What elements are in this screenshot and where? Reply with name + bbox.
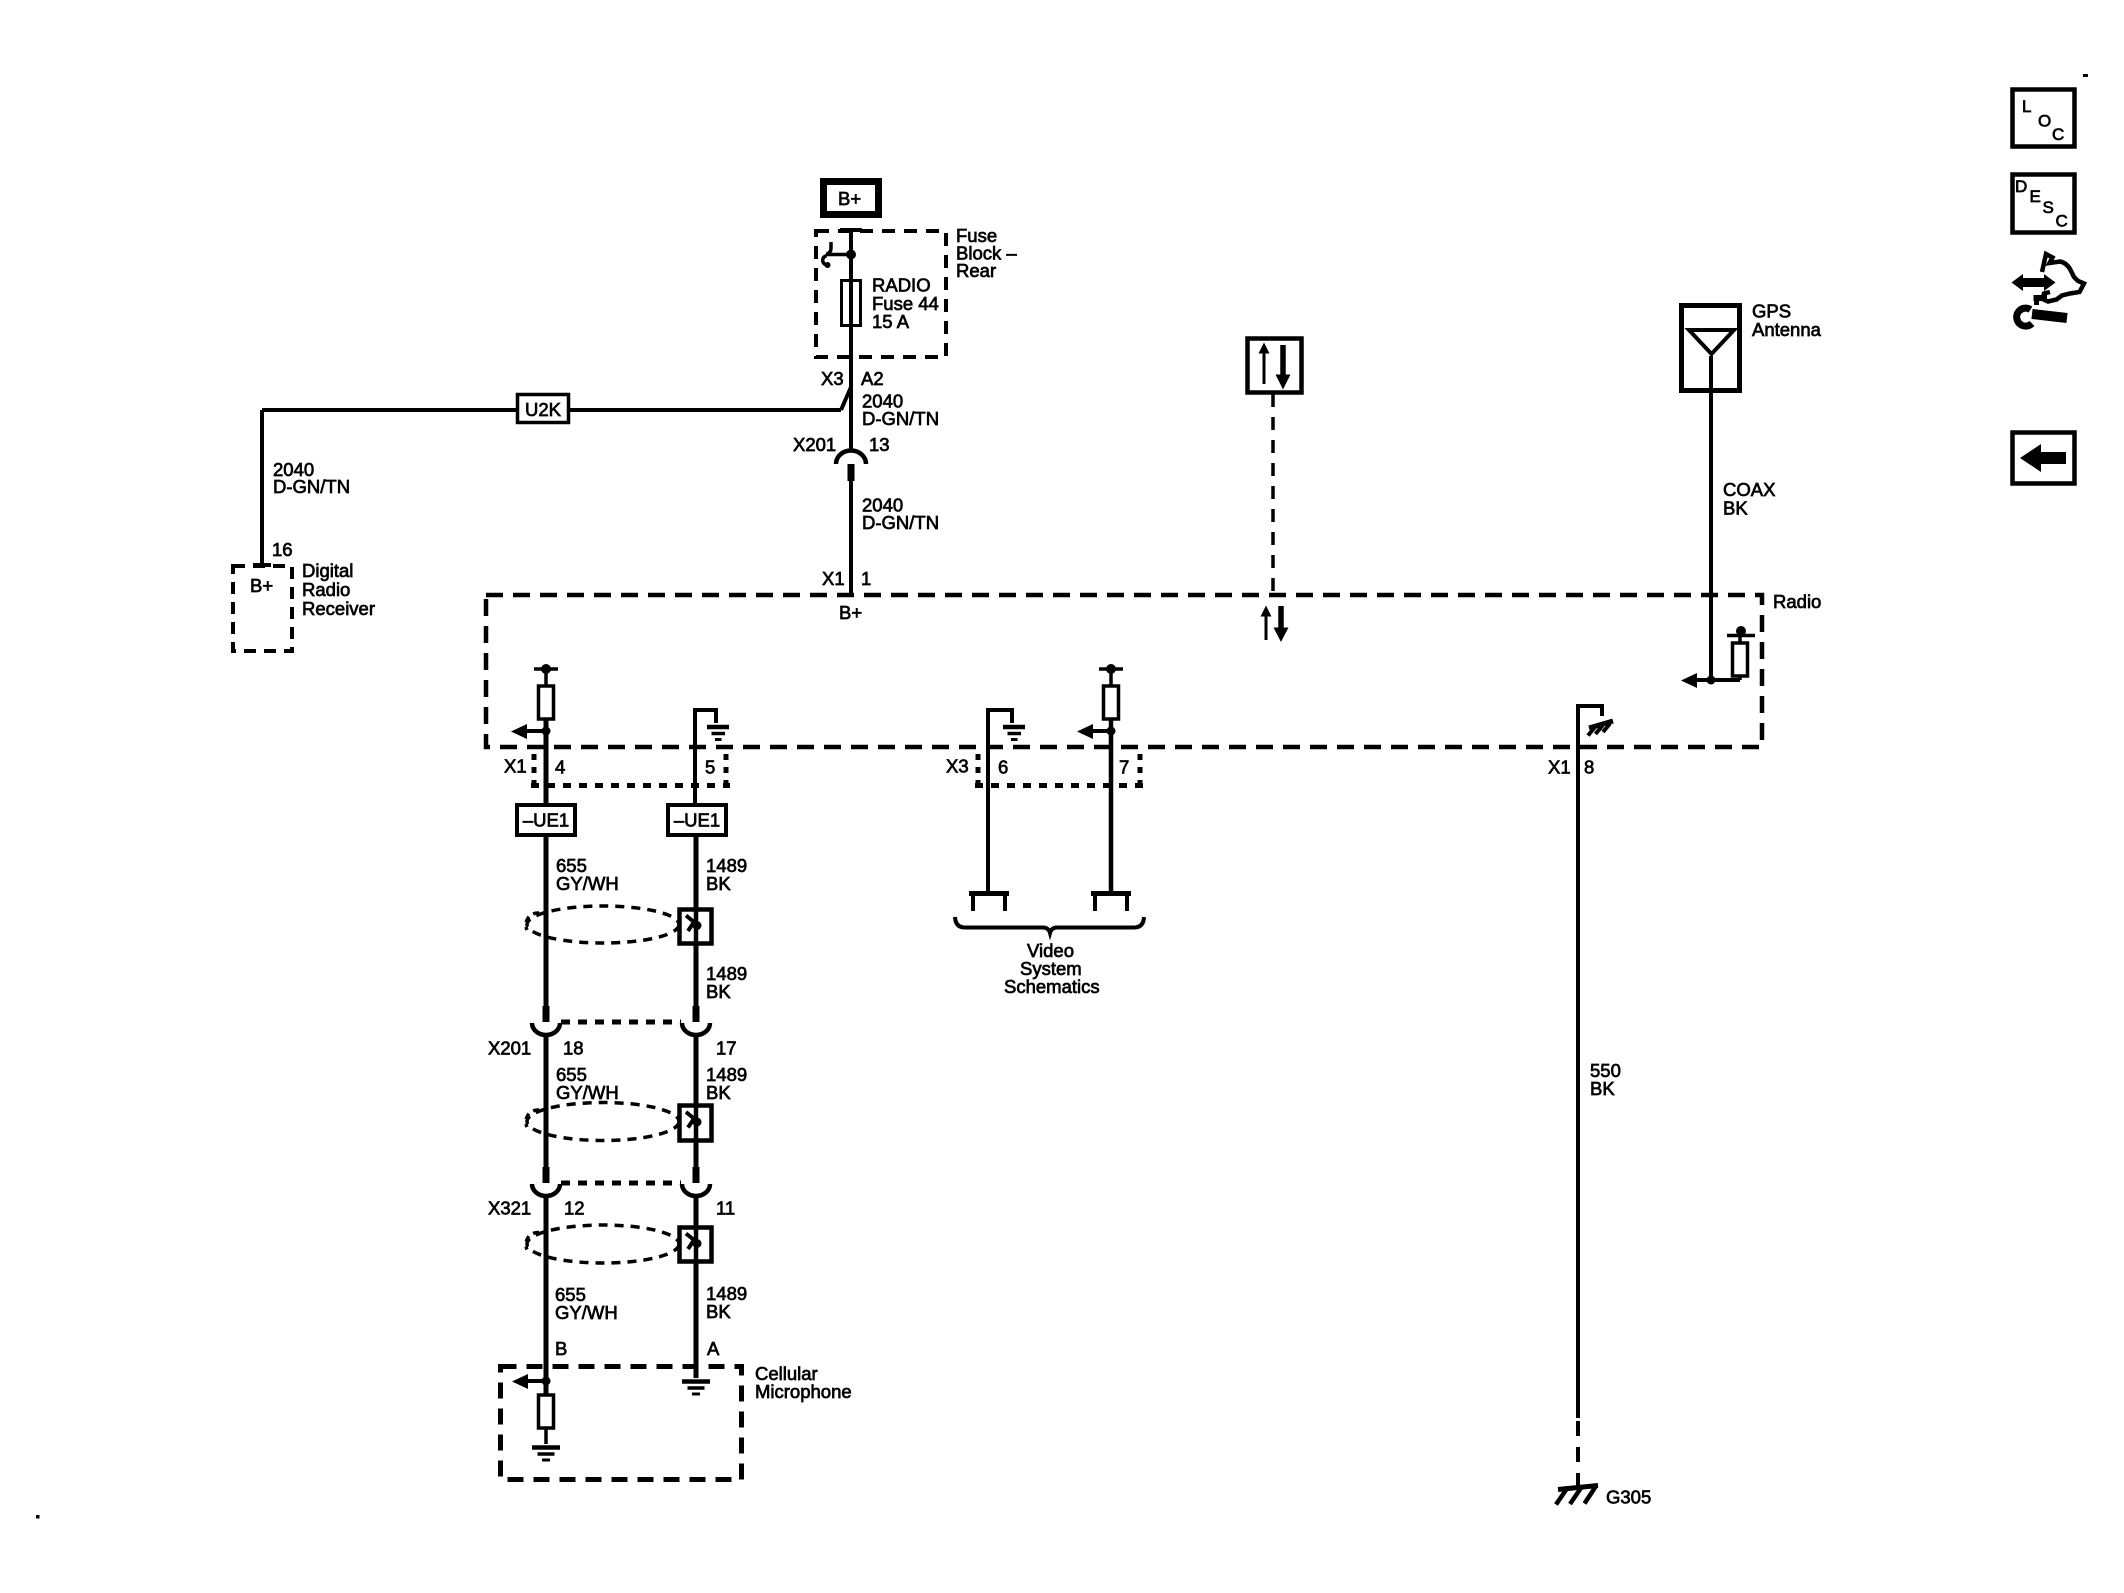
svg-text:GY/WH: GY/WH	[556, 873, 619, 894]
svg-text:Receiver: Receiver	[302, 598, 375, 619]
svg-text:Rear: Rear	[956, 260, 996, 281]
svg-text:4: 4	[555, 757, 565, 778]
svg-text:Digital: Digital	[302, 560, 353, 581]
svg-text:Radio: Radio	[302, 579, 350, 600]
svg-text:D: D	[2015, 177, 2027, 196]
svg-text:1: 1	[861, 568, 871, 589]
svg-text:16: 16	[272, 539, 293, 560]
svg-text:BK: BK	[1723, 498, 1748, 519]
svg-text:X201: X201	[793, 434, 836, 455]
svg-text:G305: G305	[1606, 1487, 1651, 1508]
svg-text:D-GN/TN: D-GN/TN	[273, 476, 350, 497]
svg-text:15 A: 15 A	[872, 311, 910, 332]
svg-text:–UE1: –UE1	[523, 810, 569, 831]
svg-text:Radio: Radio	[1773, 591, 1821, 612]
svg-text:D-GN/TN: D-GN/TN	[862, 512, 939, 533]
svg-text:X3: X3	[821, 368, 844, 389]
svg-text:B+: B+	[250, 575, 273, 596]
svg-text:C: C	[2056, 212, 2068, 231]
svg-text:5: 5	[705, 757, 715, 778]
svg-text:BK: BK	[1590, 1078, 1615, 1099]
svg-text:L: L	[2022, 97, 2031, 116]
svg-text:X3: X3	[946, 756, 969, 777]
svg-text:A: A	[707, 1338, 720, 1359]
svg-text:E: E	[2030, 187, 2041, 206]
svg-text:D-GN/TN: D-GN/TN	[862, 408, 939, 429]
svg-text:6: 6	[998, 757, 1008, 778]
svg-text:S: S	[2043, 198, 2054, 217]
svg-text:B+: B+	[839, 602, 862, 623]
svg-text:13: 13	[869, 434, 890, 455]
svg-text:8: 8	[1584, 757, 1594, 778]
svg-text:X1: X1	[822, 568, 845, 589]
svg-text:U2K: U2K	[525, 399, 562, 420]
svg-text:C: C	[2052, 125, 2064, 144]
svg-text:Antenna: Antenna	[1752, 319, 1822, 340]
svg-text:7: 7	[1119, 757, 1129, 778]
svg-text:Schematics: Schematics	[1004, 976, 1100, 997]
svg-text:A2: A2	[861, 368, 884, 389]
svg-text:11: 11	[716, 1198, 735, 1219]
svg-text:X1: X1	[504, 756, 527, 777]
svg-text:17: 17	[716, 1038, 737, 1059]
svg-text:18: 18	[563, 1038, 584, 1059]
svg-text:X201: X201	[488, 1038, 531, 1059]
svg-text:O: O	[2038, 112, 2051, 131]
svg-text:B: B	[555, 1338, 567, 1359]
svg-text:BK: BK	[706, 981, 731, 1002]
svg-text:BK: BK	[706, 873, 731, 894]
svg-text:BK: BK	[706, 1082, 731, 1103]
svg-text:Microphone: Microphone	[755, 1381, 852, 1402]
svg-text:GY/WH: GY/WH	[555, 1302, 618, 1323]
svg-text:–UE1: –UE1	[674, 810, 720, 831]
svg-text:BK: BK	[706, 1301, 731, 1322]
svg-text:X321: X321	[488, 1198, 531, 1219]
svg-text:12: 12	[564, 1198, 585, 1219]
svg-text:GY/WH: GY/WH	[556, 1082, 619, 1103]
svg-text:X1: X1	[1548, 757, 1571, 778]
svg-text:B+: B+	[838, 188, 861, 209]
